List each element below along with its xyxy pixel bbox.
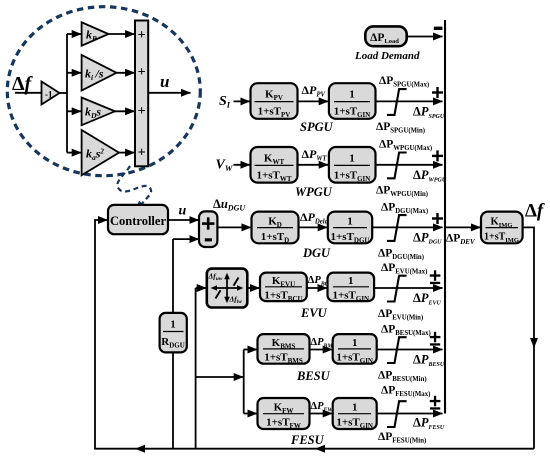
wire GIN to sum line BESU xyxy=(377,349,443,351)
block 1/R_DGU xyxy=(160,313,187,353)
block K_PV xyxy=(251,83,298,119)
svg-text:1: 1 xyxy=(349,152,355,164)
saturation SPGU xyxy=(387,89,407,115)
sign pm BESU xyxy=(434,332,436,343)
wire GIN to sum line FESU xyxy=(377,413,443,415)
wire summing bar output u xyxy=(148,92,190,94)
svg-text:u: u xyxy=(160,72,169,91)
wire to ka s2 xyxy=(67,152,81,154)
svg-text:ΔPEVU: ΔPEVU xyxy=(413,291,441,306)
svg-text:ΔPBESU: ΔPBESU xyxy=(413,353,445,368)
wire GIN to sum line xyxy=(376,100,443,102)
dashed callout arrow from ellipse to Controller xyxy=(117,166,151,205)
wire deadband to K_EVU xyxy=(247,287,259,289)
wire sum line to K_IMG xyxy=(445,226,480,228)
svg-text:1: 1 xyxy=(352,337,358,349)
svg-text:ΔPBESU(Min): ΔPBESU(Min) xyxy=(378,370,427,384)
dashed ellipse (controller detail bubble) xyxy=(7,7,200,176)
wire K_D to GIN DGU xyxy=(299,226,328,228)
svg-text:ΔPBESU(Max): ΔPBESU(Max) xyxy=(381,324,431,338)
sign plus SPGU xyxy=(436,87,438,98)
wire K_WT to GIN xyxy=(298,164,329,166)
svg-text:-1: -1 xyxy=(45,90,53,100)
block 1/(1+sT_DGU) xyxy=(328,212,372,244)
svg-text:WPGU: WPGU xyxy=(295,185,333,199)
svg-text:Δf: Δf xyxy=(12,73,34,95)
svg-text:ΔPDGU(Min): ΔPDGU(Min) xyxy=(378,247,424,261)
sign minus for load xyxy=(434,27,443,30)
sign pm FESU xyxy=(434,396,436,407)
wire GIN to sum line EVU xyxy=(374,287,442,289)
svg-text:ΔPSPGU(Min): ΔPSPGU(Min) xyxy=(376,121,425,135)
svg-text:VW: VW xyxy=(216,158,234,174)
gain ka s^2 triangle xyxy=(82,130,119,175)
block 1/(1+sT_GIN) EVU xyxy=(328,273,375,302)
wire K_FW to GIN FESU xyxy=(310,413,333,415)
wire K_BMS to GIN BESU xyxy=(310,349,333,351)
svg-text:ΔPFESU(Max): ΔPFESU(Max) xyxy=(381,385,430,399)
wire GIN to sum line DGU xyxy=(372,226,442,228)
svg-text:ΔPDGU: ΔPDGU xyxy=(413,230,442,245)
wire K_PV to GIN xyxy=(298,100,329,102)
svg-text:ΔPEVU(Max): ΔPEVU(Max) xyxy=(381,262,427,276)
deadband block xyxy=(207,269,248,308)
arrowhead left on bottom wire (left) xyxy=(135,445,145,453)
svg-text:ΔPDGU(Max): ΔPDGU(Max) xyxy=(381,201,428,215)
block K_D xyxy=(252,212,299,244)
gain kD s triangle xyxy=(82,98,115,126)
block ΔP_Load xyxy=(365,26,406,46)
svg-text:+: + xyxy=(138,104,146,119)
block 1/(1+sT_GIN) BESU xyxy=(333,334,377,364)
sign plus DGU xyxy=(436,213,438,224)
svg-text:ki /s: ki /s xyxy=(85,67,104,83)
svg-text:ΔPSPGU(Max): ΔPSPGU(Max) xyxy=(379,75,429,89)
wire K_IMG output to right vertical xyxy=(523,227,534,448)
svg-text:SI: SI xyxy=(219,94,231,110)
wire ki/s to summing bar xyxy=(117,72,135,74)
summing bar xyxy=(135,21,148,167)
wire vertical distribution line xyxy=(66,34,68,153)
wire summer to K_D block xyxy=(217,226,251,228)
wire to kDs xyxy=(67,110,81,112)
saturation FESU xyxy=(387,401,407,427)
saturation BESU xyxy=(387,337,407,363)
wire kas2 to summing bar xyxy=(119,152,135,154)
wire branch to BESU/FESU xyxy=(196,376,244,378)
block 1/(1+sT_GIN) SPGU xyxy=(329,83,376,119)
block 1/(1+sT_GIN) FESU xyxy=(333,398,377,429)
wire feedback vertical to deadband xyxy=(195,288,197,449)
svg-text:u: u xyxy=(179,204,187,219)
wire u Controller to summer xyxy=(168,219,199,221)
wire to ki/s xyxy=(67,72,81,74)
block K_BMS xyxy=(258,334,310,364)
wire Δf to -1 gain xyxy=(15,92,42,94)
svg-text:ΔuDGU: ΔuDGU xyxy=(213,197,246,213)
svg-text:ΔPSPGU: ΔPSPGU xyxy=(413,105,445,120)
svg-text:ΔPFESU(Min): ΔPFESU(Min) xyxy=(378,431,426,445)
wire GIN to sum line WPGU xyxy=(376,164,443,166)
svg-text:ΔPWPGU: ΔPWPGU xyxy=(413,168,447,183)
svg-text:1: 1 xyxy=(348,275,354,287)
svg-text:ΔPFW: ΔPFW xyxy=(311,401,334,413)
svg-text:Controller: Controller xyxy=(110,214,166,228)
svg-text:Δf: Δf xyxy=(525,201,545,222)
svg-text:BESU: BESU xyxy=(296,369,331,383)
block K_IMG xyxy=(481,212,523,244)
gain -1 triangle xyxy=(42,82,60,105)
block K_WT xyxy=(251,147,298,183)
svg-text:1: 1 xyxy=(349,89,355,101)
wire to kP xyxy=(67,33,81,35)
svg-text:ΔPEVU(Min): ΔPEVU(Min) xyxy=(378,308,423,322)
svg-text:EVU: EVU xyxy=(300,306,328,320)
gain ki/s triangle xyxy=(82,55,117,91)
arrowhead down on right vertical xyxy=(530,338,538,348)
svg-text:ΔPWT: ΔPWT xyxy=(302,147,328,163)
svg-text:ΔPFESU: ΔPFESU xyxy=(413,416,445,431)
wire kP to summing bar xyxy=(109,33,135,35)
block 1/(1+sT_GIN) WPGU xyxy=(329,147,376,183)
wire K_EVU to GIN EVU xyxy=(307,287,327,289)
sign pm EVU xyxy=(434,270,436,281)
svg-text:DGU: DGU xyxy=(302,246,331,260)
wire bottom feedback xyxy=(94,448,534,450)
block Controller xyxy=(108,205,168,234)
sign plus WPGU xyxy=(436,150,438,161)
wire R_DGU to summer minus xyxy=(173,238,199,240)
svg-text:ΔPDEV: ΔPDEV xyxy=(446,233,476,247)
svg-text:ΔPWPGU(Max): ΔPWPGU(Max) xyxy=(379,139,432,153)
wire kDs to summing bar xyxy=(115,110,135,112)
svg-text:+: + xyxy=(138,146,146,161)
svg-text:1: 1 xyxy=(170,319,176,331)
arrowhead left on bottom wire (right) xyxy=(315,445,325,453)
svg-text:Load Demand: Load Demand xyxy=(354,50,420,62)
svg-text:ΔPPV: ΔPPV xyxy=(302,83,326,99)
saturation EVU xyxy=(387,276,407,302)
saturation WPGU xyxy=(387,153,407,179)
wire feedback into Controller xyxy=(95,220,108,449)
saturation DGU xyxy=(387,215,407,241)
block K_FW xyxy=(258,398,310,429)
svg-text:1: 1 xyxy=(352,402,358,414)
block K_EVU xyxy=(260,273,307,302)
svg-text:1: 1 xyxy=(347,216,353,228)
svg-text:ΔPWPGU(Min): ΔPWPGU(Min) xyxy=(376,185,428,199)
svg-text:SPGU: SPGU xyxy=(300,120,334,134)
wire vertical from bottom to R_DGU xyxy=(172,352,174,448)
summing vertical line xyxy=(444,20,446,414)
wire -1 to distribution node xyxy=(60,92,68,94)
svg-text:+: + xyxy=(138,28,146,43)
svg-text:+: + xyxy=(138,65,146,80)
summer block +/- xyxy=(199,211,217,247)
gain kP triangle xyxy=(82,22,109,45)
wire ΔP_Load to sum line xyxy=(407,36,443,38)
svg-text:FESU: FESU xyxy=(290,433,325,447)
